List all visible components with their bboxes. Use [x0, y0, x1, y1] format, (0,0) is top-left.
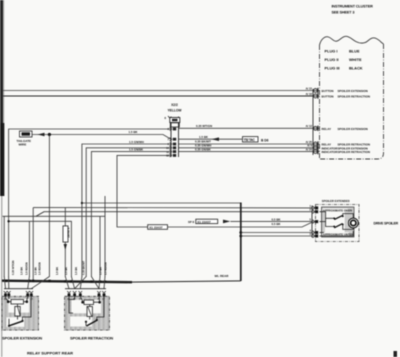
svg-text:A/ 25: A/ 25 — [306, 140, 313, 144]
connector X2/2 body — [171, 117, 179, 158]
svg-text:SPOILER RETRACTION: SPOILER RETRACTION — [338, 95, 370, 99]
wire drive spoiler pin2 from left edge with jog — [3, 212, 314, 217]
wire elbow to x=29.4 down to relay — [9, 221, 72, 277]
junction dot on harness vertical — [239, 235, 242, 238]
junction squares on bus — [5, 280, 106, 283]
relay K1 spoiler extension box — [2, 296, 39, 330]
wire indicator spoiler extension (right of connector) — [179, 147, 314, 149]
svg-text:SP 8: SP 8 — [188, 220, 194, 224]
svg-text:SPOILER EXTENSION: SPOILER EXTENSION — [338, 89, 368, 93]
svg-text:A/ 16: A/ 16 — [306, 92, 313, 96]
svg-text:T52 TAC: T52 TAC — [244, 138, 256, 142]
drive spoiler connector rail — [311, 206, 313, 238]
drive spoiler pin 4 — [310, 228, 319, 234]
page scan edge line lower left — [1, 196, 2, 357]
relay socket rail right — [65, 288, 106, 290]
cluster pin A/25 — [306, 140, 370, 147]
tailgate wire harness connector X60 — [17, 131, 33, 147]
connector X2/2 plug symbol — [165, 116, 180, 127]
wire junction drop at x=8.6 to relay pin — [8, 221, 10, 277]
relay feed vertical x=100 — [99, 216, 101, 277]
svg-text:1.5 BK: 1.5 BK — [99, 267, 103, 275]
wire button spoiler retraction (H2) — [3, 95, 313, 97]
wire pin10 left with corner at x=86.2 — [86, 148, 171, 277]
svg-text:1.5 RD/GN: 1.5 RD/GN — [24, 262, 28, 275]
svg-text:1.5 BK: 1.5 BK — [34, 267, 38, 275]
heavy harness vertical x=240.8 — [240, 203, 242, 282]
svg-text:1.5 BK: 1.5 BK — [199, 135, 209, 139]
svg-text:0.35 GN/BK: 0.35 GN/BK — [195, 147, 212, 151]
relay K1 coil — [11, 300, 24, 305]
wire feeder y=203 from P3 to harness vertical — [82, 202, 241, 204]
wire from X1 box to drive spoiler pin 5 — [168, 222, 314, 227]
drive spoiler pin 5 — [310, 218, 319, 224]
harness corner wire to WL REAR — [128, 281, 241, 282]
drive spoiler hatched body — [322, 207, 355, 237]
svg-text:0.5 BK: 0.5 BK — [272, 222, 282, 226]
limit switch contact lower — [334, 224, 342, 228]
svg-text:WL REAR: WL REAR — [215, 274, 230, 278]
limit switch label bottom — [322, 232, 353, 236]
svg-text:WIRE: WIRE — [19, 143, 27, 147]
connector X52 inline box — [243, 137, 259, 143]
cluster pin A/24 — [306, 147, 370, 154]
motor M — [348, 218, 358, 228]
svg-text:SEE SHEET 3: SEE SHEET 3 — [332, 11, 355, 15]
left relay pins — [4, 289, 34, 301]
svg-text:PLUG II: PLUG II — [325, 57, 339, 62]
fan diagonals to left relay pins — [4, 277, 49, 289]
junction dot X60 branch — [48, 133, 51, 136]
fan diagonals to right relay pins — [65, 277, 105, 289]
svg-text:X 15A57: X 15A57 — [66, 228, 70, 239]
svg-text:SPOILER EXTENSION: SPOILER EXTENSION — [338, 127, 368, 131]
ground bus heavy line — [2, 281, 132, 283]
svg-text:0.5 BK: 0.5 BK — [272, 217, 282, 221]
svg-text:BUTTON: BUTTON — [322, 89, 334, 93]
wire tee drop to relay pin at x=29.4 — [28, 221, 30, 277]
wire from X7 box to drive spoiler pin 5 — [231, 220, 314, 222]
svg-text:BLUE: BLUE — [349, 49, 360, 54]
connector X2/2 pin row y=129 — [168, 127, 177, 131]
svg-text:1.5 BK: 1.5 BK — [64, 267, 68, 275]
svg-text:DRIVE SPOILER: DRIVE SPOILER — [374, 221, 399, 225]
wire relay spoiler retraction (right of connector) — [179, 143, 314, 145]
svg-text:1.5 RD/GN: 1.5 RD/GN — [104, 262, 108, 275]
cluster pin A/12 — [306, 124, 368, 131]
svg-text:1.5 BK: 1.5 BK — [74, 267, 78, 275]
drive spoiler boundary dash-dot — [316, 205, 360, 242]
svg-text:RELAY SUPPORT REAR: RELAY SUPPORT REAR — [27, 351, 73, 356]
svg-text:RELAY: RELAY — [322, 127, 332, 131]
svg-text:PLUG I: PLUG I — [325, 49, 338, 54]
flow arrow on X60 wire — [38, 133, 45, 137]
svg-text:A/ 12: A/ 12 — [306, 124, 313, 128]
svg-text:1.5 GN/WH: 1.5 GN/WH — [129, 140, 144, 144]
svg-text:INDICATOR: INDICATOR — [322, 150, 339, 154]
svg-text:0.35 BK/WT: 0.35 BK/WT — [82, 260, 86, 275]
connector X2/2 pin row y=151.6 — [166, 150, 176, 154]
svg-text:WHITE: WHITE — [349, 57, 362, 62]
wire drive spoiler pin1 from x=33 — [33, 208, 313, 283]
svg-text:X1 15A57: X1 15A57 — [197, 220, 211, 224]
wire relay spoiler extension (right of connector) — [179, 127, 314, 129]
wire drive spoiler pin3 — [241, 235, 313, 237]
instrument cluster boundary (dash-dot box with wavy top) — [320, 36, 384, 159]
right relay pins — [65, 289, 106, 301]
relay feed vertical x=105 — [104, 196, 106, 277]
svg-text:SPOILER RETRACTION: SPOILER RETRACTION — [338, 150, 370, 154]
connector X2/2 pin row y=147.8 — [166, 146, 176, 150]
svg-text:INSTRUMENT CLUSTER: INSTRUMENT CLUSTER — [332, 5, 374, 9]
svg-text:B D6: B D6 — [261, 138, 269, 142]
SP8 vertical inline connector box — [63, 226, 70, 242]
flow arrow after X7 box — [223, 220, 231, 224]
relay K2 armature — [87, 307, 92, 317]
svg-text:BLACK: BLACK — [349, 66, 363, 71]
relay feed vertical x=65.3 with SP8 connector — [64, 208, 66, 278]
svg-text:SPOILER RETRACTION: SPOILER RETRACTION — [70, 336, 113, 341]
connector X7 inline box on relay extension wire — [196, 219, 218, 224]
cluster pin A/15 — [306, 86, 368, 93]
svg-text:1.5 RD/GN: 1.5 RD/GN — [37, 262, 41, 275]
svg-text:YELLOW: YELLOW — [167, 109, 182, 113]
svg-text:SPOILER EXTENDED: SPOILER EXTENDED — [322, 199, 350, 203]
wire pin8 left to frame corner — [9, 129, 171, 221]
wire vertical x=3.3 down to bus — [3, 216, 5, 277]
connector X1 inline box — [148, 225, 168, 230]
instrument cluster connector rail — [312, 89, 314, 155]
wire pin12 left with corner at x=117 down to X1 connector — [117, 155, 171, 227]
wire y=216.3 continuation to x=105 — [36, 215, 105, 217]
svg-text:BUTTON: BUTTON — [322, 95, 334, 99]
drive spoiler pin 2 — [310, 208, 319, 214]
relay K1 switch contact — [9, 321, 22, 326]
scan mark bottom right — [394, 351, 398, 357]
cluster pin A/9 — [307, 144, 368, 151]
svg-text:PLUG III: PLUG III — [325, 66, 340, 71]
svg-text:0.35 WT/GN: 0.35 WT/GN — [11, 260, 15, 275]
svg-text:X2/2: X2/2 — [171, 103, 178, 107]
connector X2/2 pin row y=139.2 — [168, 137, 177, 141]
wire from X60 to connector pin7 with jog — [32, 135, 171, 140]
svg-text:1.5 GN/BK: 1.5 GN/BK — [129, 147, 144, 151]
wire button spoiler extension (H1) — [3, 90, 313, 92]
svg-text:A/ 15: A/ 15 — [306, 86, 313, 90]
svg-text:0.35 WT/GN: 0.35 WT/GN — [196, 124, 212, 128]
relay K2 coil — [84, 300, 94, 305]
drive spoiler pin 3 — [310, 232, 319, 238]
wire pin11 left with corner at x=91.4 — [91, 152, 171, 277]
flow arrow on X52 wire — [212, 137, 220, 141]
cluster pin A/16 — [306, 92, 370, 99]
drive spoiler internal wiring — [320, 212, 354, 236]
wire drive spoiler pin4 — [241, 232, 313, 234]
wire to X52 connector — [179, 138, 243, 140]
relay K2 spoiler retraction box — [65, 296, 110, 330]
drive spoiler pin 1 — [310, 204, 319, 210]
wire indicator spoiler retraction (right of connector) — [179, 151, 314, 153]
page scan edge bar left — [0, 0, 3, 196]
connector X2/2 pin row y=144 — [168, 142, 177, 146]
svg-text:SPOILER EXTENSION: SPOILER EXTENSION — [2, 336, 42, 341]
relay K1 armature — [15, 307, 20, 317]
flow arrow down on SP8 wire — [64, 244, 67, 250]
svg-text:APPROXIMATE OBEN: APPROXIMATE OBEN — [323, 208, 352, 212]
connector X2/2 pin row y=155.4 — [166, 154, 176, 158]
limit switch contact upper — [334, 215, 342, 219]
relay socket rail left — [4, 288, 33, 290]
relay K2 switch contact — [87, 321, 97, 327]
svg-text:1.5 BK: 1.5 BK — [129, 130, 139, 134]
wire X60 branch down to bus — [48, 135, 50, 278]
svg-text:X1 15A57: X1 15A57 — [149, 226, 163, 230]
svg-text:1.5 BK: 1.5 BK — [55, 267, 59, 275]
svg-text:1.5 BK: 1.5 BK — [20, 267, 24, 275]
limit switch label top — [322, 208, 352, 212]
wire pin9 left with corner at x=81.9 — [82, 144, 171, 277]
